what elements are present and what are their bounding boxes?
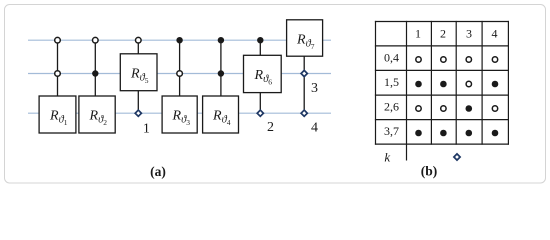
svg-text:k: k [384, 149, 390, 164]
svg-text:3,7: 3,7 [384, 124, 399, 138]
control open circle q2 col R3 [177, 71, 183, 77]
svg-text:2: 2 [440, 26, 446, 40]
control filled circle q2 col R4 [218, 70, 224, 76]
wire: control line column 2 [94, 40, 96, 96]
wire: line R7 box to diamonds 3 and 4 [303, 56, 305, 113]
control open circle q1 col R5 [136, 37, 142, 43]
svg-text:0,4: 0,4 [384, 51, 399, 65]
diamond 4 [301, 110, 307, 116]
outer frame [5, 5, 546, 184]
control filled circle q1 col R4 [218, 37, 224, 43]
wire: line R6 box to diamond 2 [259, 93, 261, 114]
wire: control line column R4 [220, 40, 222, 96]
svg-text:1: 1 [415, 26, 421, 40]
wire: control line column R5 upper [137, 40, 139, 54]
svg-text:2: 2 [267, 120, 274, 135]
gate box R4 [203, 96, 239, 133]
wire q1 (top qubit line) [28, 39, 331, 41]
svg-text:4: 4 [311, 121, 318, 136]
diamond below table [454, 154, 460, 160]
svg-text:1: 1 [143, 121, 150, 136]
svg-text:3: 3 [311, 81, 318, 96]
wire: control line column R3 [179, 40, 181, 96]
svg-text:2,6: 2,6 [384, 100, 399, 114]
diamond 2 [257, 110, 263, 116]
control filled circle q1 col R3 [176, 37, 182, 43]
svg-text:(a): (a) [150, 164, 166, 179]
control open circle q1 col1 [55, 37, 61, 43]
svg-text:3: 3 [466, 26, 472, 40]
svg-text:1,5: 1,5 [384, 75, 399, 89]
gate box R1 [39, 96, 76, 133]
gate box R5 [120, 54, 157, 91]
diamond 3 [301, 70, 307, 76]
table grid [375, 21, 509, 161]
svg-text:4: 4 [492, 26, 498, 40]
row 1,5 cells: f f o f [415, 81, 422, 88]
control filled circle q1 col R6 [257, 37, 263, 43]
svg-text:(b): (b) [421, 163, 438, 178]
gate box R6 [244, 55, 282, 92]
row 3,7 cells: f f f f [415, 130, 422, 137]
row 2,6 cells: o o f o [416, 106, 421, 111]
gate box R2 [79, 96, 115, 133]
wire q2 (middle qubit line) [28, 73, 331, 75]
control open circle q1 col2 [93, 37, 99, 43]
gate box R3 [162, 96, 197, 133]
wire q3 (bottom qubit line) [28, 112, 331, 114]
row 0,4 cells: o o o o [416, 57, 421, 62]
control filled circle q2 col2 [92, 70, 98, 76]
wire: control line column 1 [57, 40, 59, 96]
gate box R7 [287, 20, 323, 56]
control open circle q2 col1 [55, 71, 61, 77]
diamond 1 [135, 110, 141, 116]
wire: control line column R6 upper [259, 40, 261, 55]
wire: line R5 box to diamond 1 [137, 91, 139, 114]
